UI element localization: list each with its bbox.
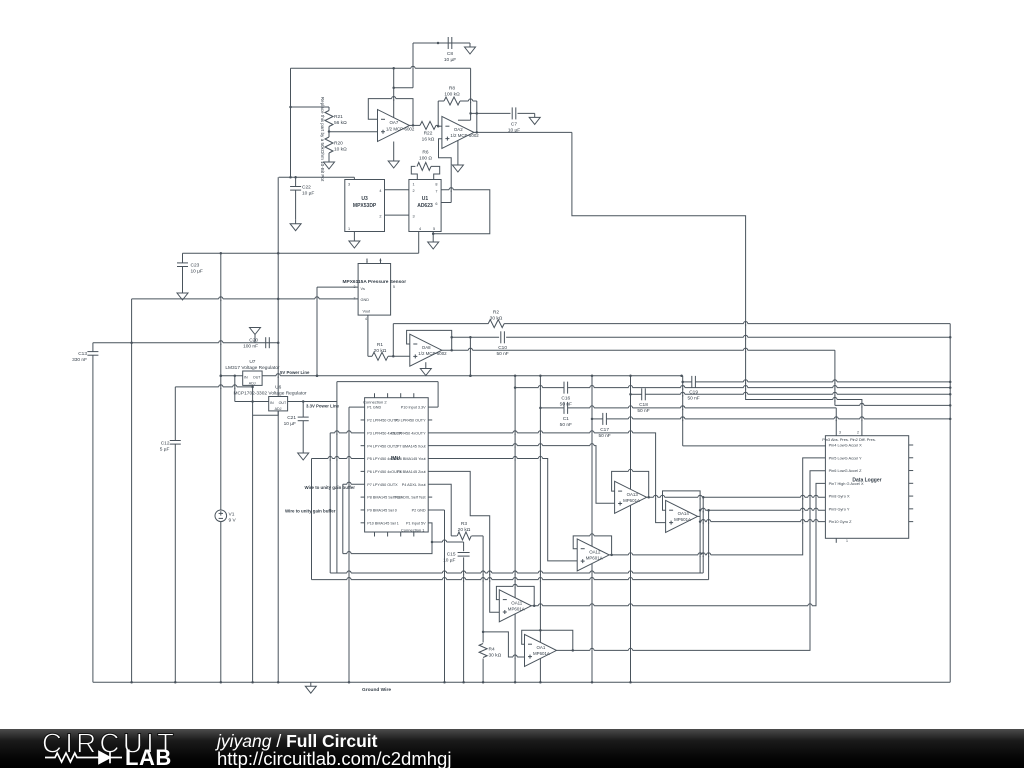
wire R21 R20 node to OA7 plus <box>329 131 378 133</box>
capacitor C17 <box>598 413 610 439</box>
svg-text:C21: C21 <box>287 415 296 421</box>
svg-text:P3 ADXL Self Test: P3 ADXL Self Test <box>395 496 426 500</box>
svg-text:R1: R1 <box>377 342 383 348</box>
wire sensor top stubs <box>367 259 381 264</box>
svg-text:10 µF: 10 µF <box>191 269 203 275</box>
svg-text:56 kΩ: 56 kΩ <box>334 120 347 126</box>
svg-text:OA7: OA7 <box>390 120 399 125</box>
svg-text:5 µF: 5 µF <box>160 447 170 453</box>
svg-text:R4: R4 <box>489 647 495 653</box>
resistor R8 <box>444 86 477 106</box>
op-amp OA12 <box>577 539 609 571</box>
svg-text:P6 BMA145 Yout: P6 BMA145 Yout <box>397 457 426 461</box>
svg-text:U1: U1 <box>422 196 429 202</box>
svg-text:P7 BMA145 Xout: P7 BMA145 Xout <box>397 444 427 448</box>
svg-text:P4 LPY450 OUTZ: P4 LPY450 OUTZ <box>367 444 398 448</box>
svg-text:OUT: OUT <box>253 376 261 380</box>
capacitor C7 <box>508 107 520 133</box>
svg-text:R21: R21 <box>334 114 343 120</box>
wire OA11 out to pin7 <box>531 483 826 605</box>
svg-text:50 nF: 50 nF <box>560 402 572 408</box>
svg-text:1: 1 <box>348 227 350 231</box>
wire P5 BMA Zout to OA11 <box>428 471 499 612</box>
svg-text:50 nF: 50 nF <box>687 396 699 402</box>
wire OA8 feedback <box>407 330 453 351</box>
wire C7 branch <box>471 112 535 114</box>
wire OA11 feedback <box>496 586 535 607</box>
voltage source V1 <box>215 253 237 683</box>
svg-text:ADJ: ADJ <box>275 407 282 411</box>
wire OA2 inverting node <box>437 101 444 127</box>
svg-text:2: 2 <box>379 215 381 219</box>
svg-text:R8: R8 <box>449 86 455 92</box>
svg-text:5: 5 <box>433 227 435 231</box>
svg-text:20 kΩ: 20 kΩ <box>374 348 387 354</box>
svg-text:OA1: OA1 <box>537 645 546 650</box>
svg-text:OA2: OA2 <box>454 127 463 132</box>
wire C16 line <box>514 376 952 684</box>
op-amp OA13 <box>615 481 647 513</box>
svg-text:Pin9 Gyro Y: Pin9 Gyro Y <box>829 506 850 511</box>
resistor R6 gain loop <box>411 150 439 180</box>
svg-text:100 Ω: 100 Ω <box>419 156 432 162</box>
svg-text:U6: U6 <box>275 385 281 391</box>
wire U3 to U1 pin2 <box>385 189 409 191</box>
svg-text:C15: C15 <box>447 552 456 558</box>
wire U6 in <box>235 376 269 402</box>
svg-text:Pin4 LowG Accel X: Pin4 LowG Accel X <box>829 443 862 448</box>
resistor R2 <box>393 310 950 328</box>
capacitor C21 <box>284 402 309 450</box>
svg-text:10 µF: 10 µF <box>302 191 314 197</box>
label 5V power line <box>280 370 310 375</box>
svg-text:3: 3 <box>348 183 350 187</box>
svg-text:3.3V Power Line: 3.3V Power Line <box>306 403 340 408</box>
wire OA12 out to pin5 <box>609 458 826 555</box>
svg-text:C12: C12 <box>161 441 170 447</box>
svg-text:Pin5 LowG Accel Y: Pin5 LowG Accel Y <box>829 455 862 460</box>
regulator U6 MCP1702 <box>233 385 306 411</box>
wire P2 gnd drop <box>428 510 446 683</box>
op-amp OA11 <box>499 590 531 622</box>
wire R4 node to OA1 plus <box>483 632 524 657</box>
wire R8 to output node <box>476 101 479 134</box>
wire P1 gnd rail <box>348 407 365 683</box>
svg-text:Pin6 LowG Accel Z: Pin6 LowG Accel Z <box>829 468 862 473</box>
svg-text:10 µF: 10 µF <box>444 57 456 63</box>
wire lower block rail <box>183 252 419 255</box>
capacitor C12 <box>160 387 181 684</box>
svg-text:Wire to unity gain buffer: Wire to unity gain buffer <box>305 485 356 490</box>
wire P7 BMA Xout to OA13 <box>428 446 614 504</box>
wire left rail to R21 <box>289 68 329 177</box>
wire OA2 output line <box>474 131 572 133</box>
svg-text:C8: C8 <box>447 51 453 57</box>
svg-text:5: 5 <box>393 285 395 289</box>
svg-text:C20: C20 <box>249 338 258 344</box>
svg-text:P1 Input 5V: P1 Input 5V <box>406 521 426 525</box>
svg-text:Wire to unity gain buffer: Wire to unity gain buffer <box>285 509 336 514</box>
svg-text:16 kΩ: 16 kΩ <box>422 137 435 143</box>
CircuitLab logo <box>40 729 190 768</box>
svg-text:P10 Input 3.3V: P10 Input 3.3V <box>401 406 426 410</box>
op-amp OA1 <box>525 634 557 666</box>
connector Data Logger <box>822 431 913 543</box>
svg-text:P5 LPY450 4xOUT: P5 LPY450 4xOUT <box>367 457 400 461</box>
svg-text:OA8: OA8 <box>422 345 431 350</box>
op-amp OA7 <box>378 110 415 142</box>
wire OA13 feedback <box>612 471 650 498</box>
svg-text:ADJ: ADJ <box>249 381 256 385</box>
svg-text:P2 LPR450 OUTX: P2 LPR450 OUTX <box>367 419 398 423</box>
wire OA7 output <box>410 124 421 126</box>
svg-text:C7: C7 <box>511 122 517 128</box>
footer banner <box>0 729 1024 768</box>
capacitor C18 <box>637 388 649 414</box>
capacitor C22 <box>290 177 314 219</box>
svg-text:1/2 MCP-6002: 1/2 MCP-6002 <box>386 126 415 131</box>
svg-text:P2 GND: P2 GND <box>412 509 426 513</box>
wire R2 feedback riser <box>392 324 394 357</box>
ic U3 MPX53DP <box>345 180 385 232</box>
svg-text:Pin7 High G Accel X: Pin7 High G Accel X <box>829 481 864 486</box>
wire upper block rail <box>279 176 355 179</box>
svg-text:LM317 Voltage Regulator: LM317 Voltage Regulator <box>225 365 280 371</box>
wire sensor Vs feed <box>316 287 358 377</box>
capacitor C20 <box>243 337 269 349</box>
ground at C7 <box>529 113 540 124</box>
svg-text:OA13: OA13 <box>627 492 639 497</box>
wire OA2 vplus supply <box>458 68 472 120</box>
wire U3 pin1 ground <box>353 232 355 238</box>
footer title <box>217 732 377 750</box>
svg-text:OA14: OA14 <box>678 511 690 516</box>
wire 5V rail <box>262 374 683 377</box>
svg-text:MPX6115A Pressure Sensor: MPX6115A Pressure Sensor <box>343 279 407 285</box>
connector Connection2 IMU <box>361 393 433 536</box>
label ground wire <box>362 687 391 693</box>
svg-text:8: 8 <box>435 183 437 187</box>
wire OA14 feedback <box>663 491 702 573</box>
svg-text:10 kΩ: 10 kΩ <box>334 147 347 153</box>
wire OA2 out route to logger <box>572 132 862 435</box>
regulator U7 LM317 <box>225 359 280 385</box>
svg-text:C18: C18 <box>639 402 648 408</box>
wire OA1 feedback <box>522 630 574 651</box>
svg-text:1: 1 <box>846 539 848 543</box>
wire P1 5V chain <box>343 523 433 554</box>
wire P4 ADXL to R3 <box>428 484 451 536</box>
resistor R1 <box>372 342 410 360</box>
wire P5 to bus <box>312 459 365 580</box>
ground at U1 pin5 <box>428 234 439 249</box>
svg-text:LAB: LAB <box>125 745 172 768</box>
svg-text:P9 BMA145 Sel 0: P9 BMA145 Sel 0 <box>367 509 397 513</box>
resistor R4 <box>479 631 501 684</box>
capacitor C10 <box>496 331 508 357</box>
svg-text:50 nF: 50 nF <box>496 351 508 357</box>
svg-text:Connection 1: Connection 1 <box>401 527 425 532</box>
wire sensor Vout <box>368 315 372 356</box>
wire hops <box>219 66 864 659</box>
svg-text:C23: C23 <box>191 263 200 269</box>
ic U1 AD623 <box>409 180 441 232</box>
wire U7 in <box>220 374 243 377</box>
svg-text:Replace this part by a 50kOhm: Replace this part by a 50kOhm 10-Bit Pot <box>320 97 325 182</box>
capacitor C23 <box>177 253 203 289</box>
label wire to unity gain buffer A <box>305 485 356 490</box>
svg-text:R20: R20 <box>334 141 343 147</box>
wire U1 pin6 out <box>441 202 451 204</box>
svg-text:R3: R3 <box>461 521 467 527</box>
svg-text:Vout: Vout <box>363 310 372 314</box>
wire right collector rail <box>949 324 951 683</box>
svg-text:3: 3 <box>839 431 841 435</box>
wire OA8 output <box>442 350 952 406</box>
wire C8 branch <box>392 42 470 118</box>
wire C15 branch <box>432 541 464 543</box>
svg-text:P8 LPR450 4xOUTY: P8 LPR450 4xOUTY <box>391 431 426 435</box>
wire C10 to rail <box>469 337 472 377</box>
svg-text:MP601A: MP601A <box>674 517 691 522</box>
svg-text:P1 GND: P1 GND <box>367 406 381 410</box>
svg-text:Pin8 Gyro X: Pin8 Gyro X <box>829 494 850 499</box>
svg-text:100 nF: 100 nF <box>243 344 258 350</box>
svg-text:P7 LPY450 OUTX: P7 LPY450 OUTX <box>367 483 398 487</box>
op-amp OA8 <box>410 334 447 366</box>
svg-text:IN: IN <box>270 401 274 405</box>
svg-text:MP601A: MP601A <box>586 556 603 561</box>
resistor R21 <box>325 107 347 132</box>
svg-text:U7: U7 <box>249 359 255 365</box>
wire U3 to U1 pin3 <box>385 214 409 216</box>
wire OA1 out to pin6 <box>557 471 827 651</box>
svg-text:C22: C22 <box>302 185 311 191</box>
svg-text:OA12: OA12 <box>589 550 601 555</box>
capacitor C13 <box>72 343 98 683</box>
ground under OA8 <box>420 362 431 375</box>
wire OA2 plus input path <box>439 139 452 203</box>
svg-text:GND: GND <box>361 298 370 302</box>
svg-text:OA11: OA11 <box>511 600 522 605</box>
svg-text:2: 2 <box>857 431 859 435</box>
resistor R20 <box>325 130 347 158</box>
svg-text:50 nF: 50 nF <box>560 422 572 428</box>
svg-text:V1: V1 <box>229 512 235 518</box>
wire P6 BMA Yout to OA12 <box>428 459 577 561</box>
svg-text:MPX53DP: MPX53DP <box>353 203 377 209</box>
wire bus lower <box>312 510 709 579</box>
svg-text:C13: C13 <box>78 351 87 357</box>
op-amp OA14 <box>666 500 698 532</box>
wire 3p3 line <box>288 382 439 573</box>
svg-text:Pin3 Abs. Pres. Pin2 Diff. Pre: Pin3 Abs. Pres. Pin2 Diff. Pres. <box>822 437 876 442</box>
wire P7 to 5v chain <box>343 484 365 553</box>
svg-text:Vs: Vs <box>361 287 366 291</box>
label wire to unity gain buffer B <box>285 509 336 514</box>
svg-text:P10 BMA145 Sel 1: P10 BMA145 Sel 1 <box>367 521 399 525</box>
svg-text:AD623: AD623 <box>417 203 433 209</box>
note rotated text pot <box>320 97 325 182</box>
svg-text:MP601A: MP601A <box>623 498 640 503</box>
wire bus upper <box>330 497 703 573</box>
svg-text:MP601A: MP601A <box>508 607 525 612</box>
resistor R3 <box>451 521 483 632</box>
svg-text:P4 ADXL Xout: P4 ADXL Xout <box>402 483 427 487</box>
capacitor C19 <box>687 376 699 402</box>
svg-text:50 nF: 50 nF <box>598 433 610 439</box>
ground under C22 <box>290 220 301 231</box>
wire C18 line <box>629 376 951 684</box>
svg-text:7: 7 <box>435 190 437 194</box>
wire ground rail <box>93 681 950 683</box>
wire C19 line <box>681 376 951 446</box>
svg-text:C17: C17 <box>600 427 609 433</box>
wire OA12 feedback <box>573 536 613 556</box>
wire OA13 out pin8 <box>647 496 826 499</box>
svg-text:10 µF: 10 µF <box>443 558 455 564</box>
svg-text:4: 4 <box>379 189 381 193</box>
svg-text:1/2 MCP-6002: 1/2 MCP-6002 <box>418 351 447 356</box>
svg-text:Connection 2: Connection 2 <box>363 399 387 404</box>
svg-text:6: 6 <box>435 202 437 206</box>
svg-text:4: 4 <box>419 227 421 231</box>
svg-text:R2: R2 <box>493 310 499 316</box>
ic MPX6115A pressure sensor <box>343 259 407 322</box>
svg-text:3: 3 <box>413 215 415 219</box>
footer url <box>217 750 451 768</box>
ground under OA2 <box>452 140 463 172</box>
wire P3 to bus <box>330 433 364 573</box>
ground above C20 <box>250 328 261 343</box>
svg-text:20 kΩ: 20 kΩ <box>458 527 471 533</box>
label 3.3V power line <box>306 403 340 408</box>
svg-text:Ground Wire: Ground Wire <box>362 687 391 693</box>
wire U6 adj hook <box>253 411 279 415</box>
capacitor C15 <box>443 542 469 683</box>
op-amp OA2 <box>442 116 479 148</box>
svg-text:1/2 MCP-6002: 1/2 MCP-6002 <box>450 133 479 138</box>
ground under C21 <box>298 449 309 460</box>
ground at C8 <box>465 43 476 54</box>
wire U1 pin4 to rail <box>418 232 420 254</box>
wire U7 adj rail <box>251 385 254 683</box>
wire sensor GND line <box>130 299 358 684</box>
svg-text:OUT: OUT <box>279 401 287 405</box>
svg-text:30 kΩ: 30 kΩ <box>490 316 503 322</box>
svg-text:4: 4 <box>365 317 367 321</box>
svg-text:5V Power Line: 5V Power Line <box>280 370 310 375</box>
wire C10 line <box>450 336 951 339</box>
svg-text:9 V: 9 V <box>229 518 237 524</box>
ground symbol main <box>305 682 316 693</box>
capacitor C1 <box>560 402 572 428</box>
svg-text:Pin10 Gyro Z: Pin10 Gyro Z <box>829 519 853 524</box>
wire pin4 line <box>683 445 826 447</box>
svg-text:R6: R6 <box>422 150 428 156</box>
svg-text:IN: IN <box>244 376 248 380</box>
wire OA7 feedback <box>368 99 414 127</box>
svg-text:C16: C16 <box>561 396 570 402</box>
wire C1 line <box>539 376 836 684</box>
svg-text:330 nF: 330 nF <box>72 357 87 363</box>
wire C12 top line <box>175 386 252 388</box>
svg-text:1: 1 <box>413 183 415 187</box>
wire main top rail <box>291 67 471 69</box>
wire pin10 line <box>700 521 826 523</box>
wire C13 C20 line <box>93 342 278 344</box>
svg-text:MCP1702-3302 Voltage Regulator: MCP1702-3302 Voltage Regulator <box>233 391 306 397</box>
svg-text:C1: C1 <box>563 416 569 422</box>
svg-text:R22: R22 <box>424 131 433 137</box>
ground under R20 <box>324 158 335 169</box>
svg-text:100 kΩ: 100 kΩ <box>444 92 460 98</box>
wire C17 line <box>591 376 952 684</box>
svg-text:MP601A: MP601A <box>533 651 550 656</box>
wire U1 pin7 loop <box>432 190 490 235</box>
wire P8 LPR OUTY to OA14 plus <box>428 433 665 523</box>
svg-text:P9 LPR450 OUTY: P9 LPR450 OUTY <box>395 419 426 423</box>
ground under C23 <box>177 289 188 300</box>
svg-text:10 µF: 10 µF <box>284 421 296 427</box>
resistor R22 <box>420 121 438 142</box>
ground under OA7 <box>388 142 399 169</box>
svg-text:30 kΩ: 30 kΩ <box>489 653 502 659</box>
svg-text:2: 2 <box>413 189 415 193</box>
wire OA14 out pin9 <box>698 509 826 516</box>
capacitor C16 <box>560 382 572 408</box>
wire left rail x278 <box>277 177 280 683</box>
capacitor C8 <box>444 37 456 63</box>
svg-text:50 nF: 50 nF <box>637 408 649 414</box>
ground under U3 <box>349 237 360 248</box>
svg-text:P5 BMA145 Zout: P5 BMA145 Zout <box>397 470 427 474</box>
svg-text:U3: U3 <box>361 196 368 202</box>
